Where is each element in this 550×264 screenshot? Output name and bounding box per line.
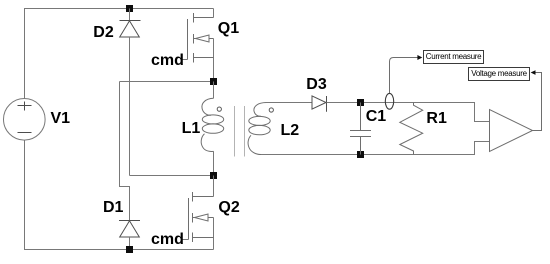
node junction bottom rail / D1 anode (126, 246, 133, 253)
label R1 (426, 111, 446, 127)
label C1 (366, 109, 386, 125)
wire left rail (24, 9, 26, 250)
node junction C1 top (357, 99, 364, 106)
node junction J1 (Q1 source / L1 top) (210, 78, 217, 85)
label V1 (51, 111, 71, 127)
diode D3 (312, 96, 327, 112)
wire left column down with jog (120, 82, 130, 222)
wire top rail (24, 8, 214, 10)
label Q1 (218, 21, 239, 37)
wire bottom rail (24, 249, 214, 251)
current probe (385, 93, 393, 109)
op-amp U1 (490, 110, 533, 152)
inductor L1 (primary winding) (201, 82, 224, 176)
voltage source V1 (4, 99, 46, 141)
node junction C1 bottom (357, 151, 364, 158)
label cmd (Q2 gate) (151, 232, 184, 248)
label D1 (103, 200, 123, 216)
transformer core (235, 106, 245, 157)
transistor Q2 (MOSFET) (182, 176, 214, 250)
node junction top rail / D2 cathode (126, 5, 133, 12)
arrow into voltage measure (531, 70, 536, 75)
label D3 (306, 77, 326, 93)
wire L2 bottom rail to op-amp lower input (261, 142, 490, 155)
transistor Q1 (MOSFET) (182, 9, 214, 82)
arrow into current measure (417, 55, 422, 60)
label Q2 (218, 200, 239, 216)
diode D2 (120, 9, 141, 38)
wire L2 top lead to D3 (266, 102, 312, 104)
voltage measure box (468, 67, 530, 81)
inductor L2 (secondary winding) (248, 103, 273, 155)
wire Q2 drain row (130, 175, 214, 177)
wire Q1 source row (120, 81, 214, 83)
label L1 (182, 121, 201, 137)
label cmd (Q1 gate) (151, 53, 184, 69)
label D2 (93, 25, 113, 41)
diode D1 (119, 221, 140, 250)
capacitor C1 (350, 103, 371, 155)
node junction J2 (L1 bottom / Q2 drain) (210, 172, 217, 179)
wire probe to current measure box (390, 58, 418, 94)
label L2 (281, 123, 300, 139)
wire D2 anode down to Q2 drain row (129, 37, 131, 176)
wire op-amp output up to voltage measure (533, 73, 542, 131)
wire D3 cathode to op-amp upper input (327, 103, 490, 122)
resistor R1 (400, 103, 423, 155)
current measure box (423, 50, 484, 64)
